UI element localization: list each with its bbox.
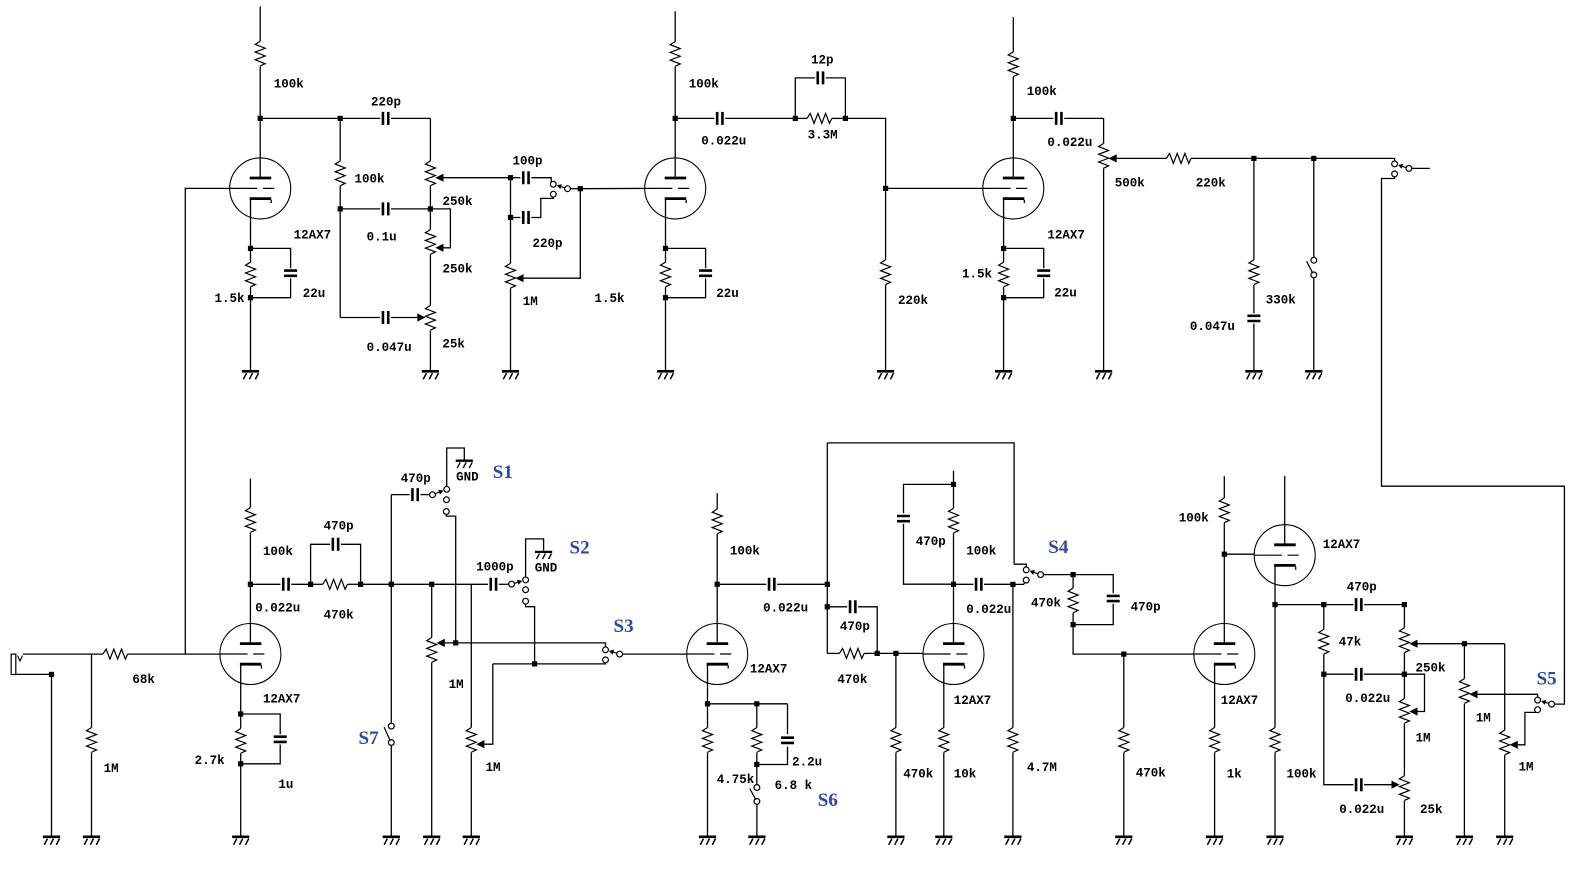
- capacitor 470p S4 block: [1073, 575, 1161, 625]
- svg-text:100k: 100k: [1287, 768, 1318, 782]
- ground: [1206, 837, 1223, 845]
- resistor 2.7k cathode V4: [195, 714, 246, 768]
- resistor 100k plate load V2: [670, 42, 719, 119]
- switch S3 throw up: [603, 647, 609, 653]
- triode V1 12AX7: [230, 158, 331, 243]
- node plate V4: [248, 582, 253, 587]
- switch S1 throw mid: [444, 497, 450, 503]
- resistor 1.5k cathode V1: [215, 248, 256, 306]
- wire S1 low throw to wiper bus: [446, 514, 455, 643]
- ground: [935, 837, 952, 845]
- triode V7 12AX7: [1194, 624, 1258, 709]
- switch output blade: [1398, 164, 1406, 169]
- node 250k junction: [428, 206, 433, 211]
- node cathode V4: [238, 711, 243, 716]
- svg-text:1M: 1M: [486, 761, 501, 775]
- node grid bus V2: [578, 186, 583, 191]
- wire cathode V8: [1274, 565, 1276, 604]
- switch S6 blade: [750, 789, 756, 800]
- potentiometer 250k lower: [425, 186, 473, 277]
- svg-text:0.022u: 0.022u: [763, 602, 808, 616]
- ground: [83, 837, 100, 845]
- ground: [877, 371, 894, 379]
- wire pole to grid bus: [570, 188, 580, 190]
- wire 1M right lower to ground: [1504, 755, 1506, 835]
- label S4: [1048, 537, 1069, 558]
- switch S7 contact B: [388, 740, 394, 746]
- svg-text:1M: 1M: [1416, 732, 1431, 746]
- capacitor 0.022u coupling V4: [250, 578, 310, 616]
- node plate V7: [1222, 552, 1227, 557]
- wire jack sleeve: [16, 673, 52, 675]
- wire presence riser: [826, 443, 828, 654]
- wire S4 block to grid V7: [1073, 625, 1194, 655]
- node S7 tap: [389, 582, 394, 587]
- ground: [43, 837, 60, 845]
- wire to ground V3 cathode: [1003, 298, 1005, 370]
- wire coupling into 25k: [417, 313, 425, 321]
- wire cathode V3: [1003, 199, 1005, 249]
- wire plate V8: [1284, 476, 1286, 545]
- switch S4 throw upper: [1023, 567, 1029, 573]
- wire 3.3M to grid V3: [845, 118, 885, 188]
- svg-text:220p: 220p: [371, 96, 401, 110]
- label S3: [614, 616, 634, 637]
- wire output stub: [1412, 167, 1430, 169]
- wire to ground V1 cathode: [250, 298, 252, 370]
- ground: [232, 837, 249, 845]
- wire plate V2: [674, 118, 676, 177]
- node grid leak V7 tap: [1121, 652, 1126, 657]
- svg-text:470k: 470k: [903, 768, 934, 782]
- svg-text:1M: 1M: [523, 295, 538, 309]
- wire 1M second to ground: [470, 753, 472, 836]
- svg-text:12AX7: 12AX7: [263, 693, 301, 707]
- potentiometer 1M second: [466, 584, 500, 775]
- svg-text:12AX7: 12AX7: [750, 663, 788, 677]
- resistor 470k series second: [827, 648, 877, 687]
- wire sleeve to ground: [51, 674, 53, 835]
- resistor 10k cathode V6: [939, 728, 977, 836]
- wire bass into 25k: [1392, 781, 1400, 789]
- resistor 4.75k cathode V5: [703, 704, 755, 836]
- svg-text:100k: 100k: [1179, 512, 1210, 526]
- node cathode bottom V3: [1001, 295, 1006, 300]
- capacitor 0.022u coupling V5: [717, 578, 827, 616]
- wire plate V7 to grid V8: [1224, 553, 1254, 555]
- svg-text:S6: S6: [818, 790, 838, 811]
- wire grid V2: [580, 187, 644, 189]
- triode V5 12AX7: [687, 624, 788, 685]
- svg-text:1M: 1M: [449, 678, 464, 692]
- node bus2 S2: [532, 661, 537, 666]
- svg-text:47k: 47k: [1339, 636, 1362, 650]
- resistor 470k grid leak V6: [891, 653, 934, 835]
- capacitor 0.022u mid: [1324, 668, 1405, 706]
- capacitor 0.1u: [340, 202, 430, 244]
- potentiometer 25k: [425, 255, 465, 371]
- wire grid V3: [886, 187, 983, 189]
- ground GND S2: [535, 552, 558, 576]
- wire cathode V4: [240, 664, 242, 714]
- capacitor 22u cathode bypass V1: [251, 248, 326, 301]
- wire cathode V7: [1214, 664, 1216, 727]
- svg-text:100k: 100k: [1027, 85, 1058, 99]
- resistor 470k S4 block: [1031, 575, 1078, 625]
- triode V4 12AX7: [220, 624, 301, 707]
- svg-text:1M: 1M: [104, 762, 119, 776]
- svg-text:100k: 100k: [274, 78, 305, 92]
- node tone A: [1321, 602, 1326, 607]
- wire B+ stub V6: [953, 471, 955, 485]
- node coupling V5 out: [825, 582, 830, 587]
- node 470k right: [358, 582, 363, 587]
- label S5: [1537, 669, 1557, 690]
- capacitor 470p plate bypass V6: [897, 484, 954, 584]
- svg-text:470p: 470p: [1347, 581, 1377, 595]
- node volume tap: [429, 582, 434, 587]
- resistor 100k plate load V3: [1008, 52, 1057, 119]
- svg-text:100k: 100k: [689, 78, 720, 92]
- capacitor 0.047u to ground: [1190, 316, 1261, 370]
- capacitor 100p: [511, 155, 552, 185]
- svg-text:12AX7: 12AX7: [1047, 229, 1085, 243]
- svg-text:1.5k: 1.5k: [595, 292, 626, 306]
- node plate V6: [951, 582, 956, 587]
- ground: [699, 837, 716, 845]
- ground: [242, 371, 259, 379]
- switch S4 throw lower: [1023, 577, 1029, 583]
- resistor 330k: [1249, 158, 1296, 313]
- wire plate V7: [1223, 554, 1225, 643]
- node grid leak V6 tap: [893, 651, 898, 656]
- potentiometer 250k treble: [1399, 605, 1446, 676]
- ground: [1396, 837, 1413, 845]
- resistor 100k plate load V4: [245, 479, 293, 585]
- wire cathode V1: [250, 199, 252, 249]
- node grid V3: [883, 186, 888, 191]
- wire output bus: [1254, 157, 1314, 159]
- svg-text:GND: GND: [456, 471, 479, 485]
- switch S4 pole: [1038, 572, 1044, 578]
- svg-text:S7: S7: [359, 728, 380, 749]
- node treble pot bottom: [1402, 672, 1407, 677]
- wire to S4 lower throw: [1013, 583, 1025, 585]
- wire plate V3: [1012, 118, 1014, 177]
- label S6: [818, 790, 838, 811]
- svg-text:1u: 1u: [278, 778, 293, 792]
- ground: [463, 837, 480, 845]
- switch S3 throw down: [603, 657, 609, 663]
- capacitor 1000p to S2: [476, 561, 514, 591]
- svg-text:0.022u: 0.022u: [1345, 692, 1390, 706]
- switch S7 blade: [384, 727, 390, 741]
- wire S7 leg upper: [390, 495, 392, 724]
- svg-text:10k: 10k: [954, 768, 977, 782]
- resistor 100k plate load V6: [949, 484, 997, 584]
- ground: [422, 371, 439, 379]
- capacitor 470p to S1: [391, 472, 431, 501]
- capacitor 1u cathode bypass V4: [241, 714, 294, 792]
- ground: [423, 837, 440, 845]
- svg-text:0.047u: 0.047u: [1190, 320, 1235, 334]
- wire bus2 to S3: [493, 663, 606, 664]
- svg-text:25k: 25k: [1420, 803, 1443, 817]
- svg-text:12p: 12p: [811, 54, 834, 68]
- switch S1 throw gnd: [444, 486, 450, 492]
- node cathode bottom V4: [238, 761, 243, 766]
- svg-text:470k: 470k: [837, 673, 868, 687]
- node 6.8k top: [754, 701, 759, 706]
- node plate V3: [1011, 116, 1016, 121]
- ground: [748, 837, 765, 845]
- resistor 47k slope: [1319, 605, 1362, 675]
- wire plate V1: [259, 118, 261, 177]
- svg-text:25k: 25k: [442, 338, 465, 352]
- node treble pot top: [1402, 602, 1407, 607]
- node cathode V2: [663, 246, 668, 251]
- svg-text:68k: 68k: [132, 673, 155, 687]
- ground: [657, 371, 674, 379]
- potentiometer 1M right lower: [1500, 644, 1538, 775]
- ground: [1245, 371, 1262, 379]
- capacitor 0.022u bass: [1324, 674, 1392, 817]
- switch S5 throw lower: [1535, 707, 1541, 713]
- svg-text:0.022u: 0.022u: [701, 135, 746, 149]
- wire cathode V5: [707, 664, 709, 704]
- svg-text:100k: 100k: [966, 545, 997, 559]
- svg-text:250k: 250k: [443, 195, 474, 209]
- capacitor 22u cathode bypass V2: [666, 248, 739, 301]
- wire divider left leg down: [339, 209, 341, 318]
- switch S4 blade: [1030, 570, 1038, 575]
- svg-text:22u: 22u: [1054, 287, 1077, 301]
- svg-text:S5: S5: [1537, 669, 1557, 690]
- node switch tap: [1311, 156, 1316, 161]
- switch output pole: [1406, 166, 1412, 172]
- node cathode bottom V2: [663, 295, 668, 300]
- svg-text:470p: 470p: [1131, 601, 1161, 615]
- switch output throw B: [1392, 171, 1398, 177]
- triode V3 12AX7: [983, 158, 1085, 243]
- svg-text:0.022u: 0.022u: [255, 602, 300, 616]
- switch S7 contact A: [388, 723, 394, 729]
- capacitor 220p bright: [340, 96, 430, 125]
- node B+ tap V6: [951, 482, 956, 487]
- resistor 3.3M: [795, 113, 845, 142]
- label S1: [493, 462, 513, 483]
- node plate V2: [673, 116, 678, 121]
- capacitor 220p switched: [511, 197, 563, 251]
- wire top loop: [827, 443, 1014, 564]
- node tone B: [1321, 672, 1326, 677]
- node cathode V8: [1272, 602, 1277, 607]
- svg-text:S1: S1: [493, 462, 513, 483]
- switch S3 pole: [617, 651, 623, 657]
- svg-text:470k: 470k: [1136, 767, 1167, 781]
- svg-text:12AX7: 12AX7: [294, 229, 332, 243]
- wire B+ stub stage V3: [1012, 17, 1014, 52]
- ground: [1305, 371, 1322, 379]
- switch ground-lift contact B: [1311, 272, 1317, 278]
- resistor 100k divider: [335, 118, 385, 208]
- node cathode bottom V1: [248, 295, 253, 300]
- switch S5 pole: [1549, 701, 1555, 707]
- resistor 100k plate load V7: [1179, 498, 1230, 554]
- node 330k tap: [1251, 156, 1256, 161]
- capacitor 22u cathode bypass V3: [1004, 248, 1077, 300]
- capacitor 12p: [795, 54, 845, 119]
- svg-text:250k: 250k: [443, 263, 474, 277]
- switch S1 throw low: [443, 509, 449, 515]
- potentiometer 250k upper: [425, 118, 510, 209]
- switch cap-select pole: [565, 186, 571, 192]
- ground: [1115, 837, 1132, 845]
- switch S1 blade: [436, 490, 444, 495]
- node 6.8k bottom: [754, 762, 759, 767]
- node wiper bus: [508, 175, 513, 180]
- node cathode V5: [705, 701, 710, 706]
- svg-text:3.3M: 3.3M: [808, 129, 838, 143]
- wire cathode V6: [943, 664, 945, 727]
- wire to ground V4 cathode: [240, 764, 242, 836]
- svg-text:12AX7: 12AX7: [954, 694, 992, 708]
- node S4 block bottom: [1071, 622, 1076, 627]
- svg-text:22u: 22u: [303, 287, 326, 301]
- resistor 100k plate load V5: [712, 493, 760, 584]
- node coupling V6 out: [1010, 582, 1015, 587]
- ground: [1266, 837, 1283, 845]
- resistor 6.8k switched cathode V5: [752, 704, 813, 793]
- resistor 220k series: [1166, 153, 1254, 190]
- wire S2 to GND: [526, 539, 544, 577]
- switch S2 pole: [509, 581, 515, 587]
- svg-text:470p: 470p: [916, 535, 946, 549]
- wire to ground V2 cathode: [665, 298, 667, 370]
- ground: [995, 371, 1012, 379]
- wire S4 pole out: [1044, 574, 1074, 576]
- capacitor 470p across 470k second: [827, 600, 877, 653]
- svg-text:500k: 500k: [1115, 177, 1146, 191]
- node 3.3M left: [793, 116, 798, 121]
- resistor 68k grid stopper: [103, 649, 220, 687]
- node sleeve: [49, 672, 54, 677]
- resistor 1M input: [87, 654, 119, 835]
- capacitor 0.047u: [340, 311, 417, 355]
- svg-text:0.1u: 0.1u: [367, 231, 397, 245]
- wire grid V1 feedback to input stage: [185, 188, 229, 654]
- svg-text:0.047u: 0.047u: [367, 341, 412, 355]
- svg-text:330k: 330k: [1266, 294, 1297, 308]
- wire plate V4: [249, 584, 251, 643]
- svg-text:220p: 220p: [533, 237, 563, 251]
- svg-text:GND: GND: [535, 562, 558, 576]
- node plate V1: [258, 116, 263, 121]
- switch S3 blade: [609, 650, 617, 655]
- ground: [887, 837, 904, 845]
- switch cap-select throw A: [550, 181, 556, 187]
- node treble wiper tap: [1462, 641, 1467, 646]
- potentiometer 25k bass: [1399, 724, 1443, 836]
- switch S5 blade: [1541, 700, 1548, 705]
- wire 500k to ground: [1103, 168, 1105, 370]
- potentiometer 1M mid: [1399, 674, 1430, 745]
- wire jack tip: [23, 653, 103, 655]
- wire long run to S5: [1382, 177, 1565, 704]
- svg-text:220k: 220k: [898, 294, 929, 308]
- wire to output switch: [1314, 158, 1395, 161]
- wire switch leg to ground: [1313, 278, 1315, 370]
- svg-text:S2: S2: [570, 538, 590, 559]
- svg-text:0.022u: 0.022u: [1047, 136, 1092, 150]
- potentiometer 1M volume: [506, 178, 581, 309]
- wire to grid V6: [877, 652, 923, 654]
- triode V8 12AX7: [1254, 525, 1360, 586]
- ground: [1456, 837, 1473, 845]
- switch ground-lift contact A: [1311, 257, 1317, 263]
- switch cap-select throw B: [550, 191, 556, 197]
- svg-text:S3: S3: [614, 616, 634, 637]
- svg-text:0.022u: 0.022u: [1339, 803, 1384, 817]
- switch S5 throw upper: [1535, 697, 1541, 703]
- svg-text:22u: 22u: [716, 287, 739, 301]
- triode V2 12AX7: [645, 158, 706, 219]
- ground: [1095, 371, 1112, 379]
- switch S2 blade: [515, 580, 522, 585]
- potentiometer 1M right upper: [1459, 644, 1537, 726]
- svg-text:100k: 100k: [730, 545, 761, 559]
- svg-text:1M: 1M: [1476, 712, 1491, 726]
- wire S6 to ground: [756, 804, 758, 835]
- wire S4 upper throw to loop: [1014, 564, 1026, 567]
- wire plate V1 to divider: [260, 117, 340, 119]
- svg-text:470k: 470k: [324, 609, 355, 623]
- wire cathode bus V5: [708, 703, 788, 705]
- wire S1 to GND: [447, 448, 465, 486]
- potentiometer 1M first: [427, 584, 464, 692]
- svg-text:100k: 100k: [263, 545, 294, 559]
- svg-text:1k: 1k: [1227, 768, 1243, 782]
- svg-text:0.022u: 0.022u: [966, 603, 1011, 617]
- wire 1M right upper to ground: [1463, 704, 1465, 836]
- svg-text:S4: S4: [1048, 537, 1069, 558]
- switch S2 throw mid: [523, 587, 529, 593]
- svg-text:470p: 470p: [840, 620, 870, 634]
- input jack J1: [11, 654, 22, 674]
- node plate V5: [715, 582, 720, 587]
- ground: [502, 371, 519, 379]
- wire wiper bus to S3: [445, 643, 606, 647]
- node 220p tap: [508, 215, 513, 220]
- label S7: [359, 728, 380, 749]
- svg-text:220k: 220k: [1196, 177, 1227, 191]
- svg-text:4.75k: 4.75k: [717, 773, 755, 787]
- resistor 100k cathode V8: [1270, 605, 1317, 836]
- svg-text:1M: 1M: [1519, 761, 1534, 775]
- svg-text:100p: 100p: [513, 155, 543, 169]
- switch cap-select blade: [557, 184, 565, 189]
- wire 1M first to ground: [431, 663, 433, 836]
- wire 1M to ground: [510, 288, 512, 370]
- svg-text:12AX7: 12AX7: [1323, 538, 1361, 552]
- svg-text:12AX7: 12AX7: [1221, 694, 1259, 708]
- switch ground-lift blade: [1307, 261, 1313, 273]
- potentiometer 500k master: [1099, 118, 1167, 190]
- switch S6 contact A: [754, 785, 760, 791]
- node 470k left: [308, 582, 313, 587]
- switch S1 pole: [430, 492, 436, 498]
- resistor 1.5k cathode V3: [962, 248, 1009, 297]
